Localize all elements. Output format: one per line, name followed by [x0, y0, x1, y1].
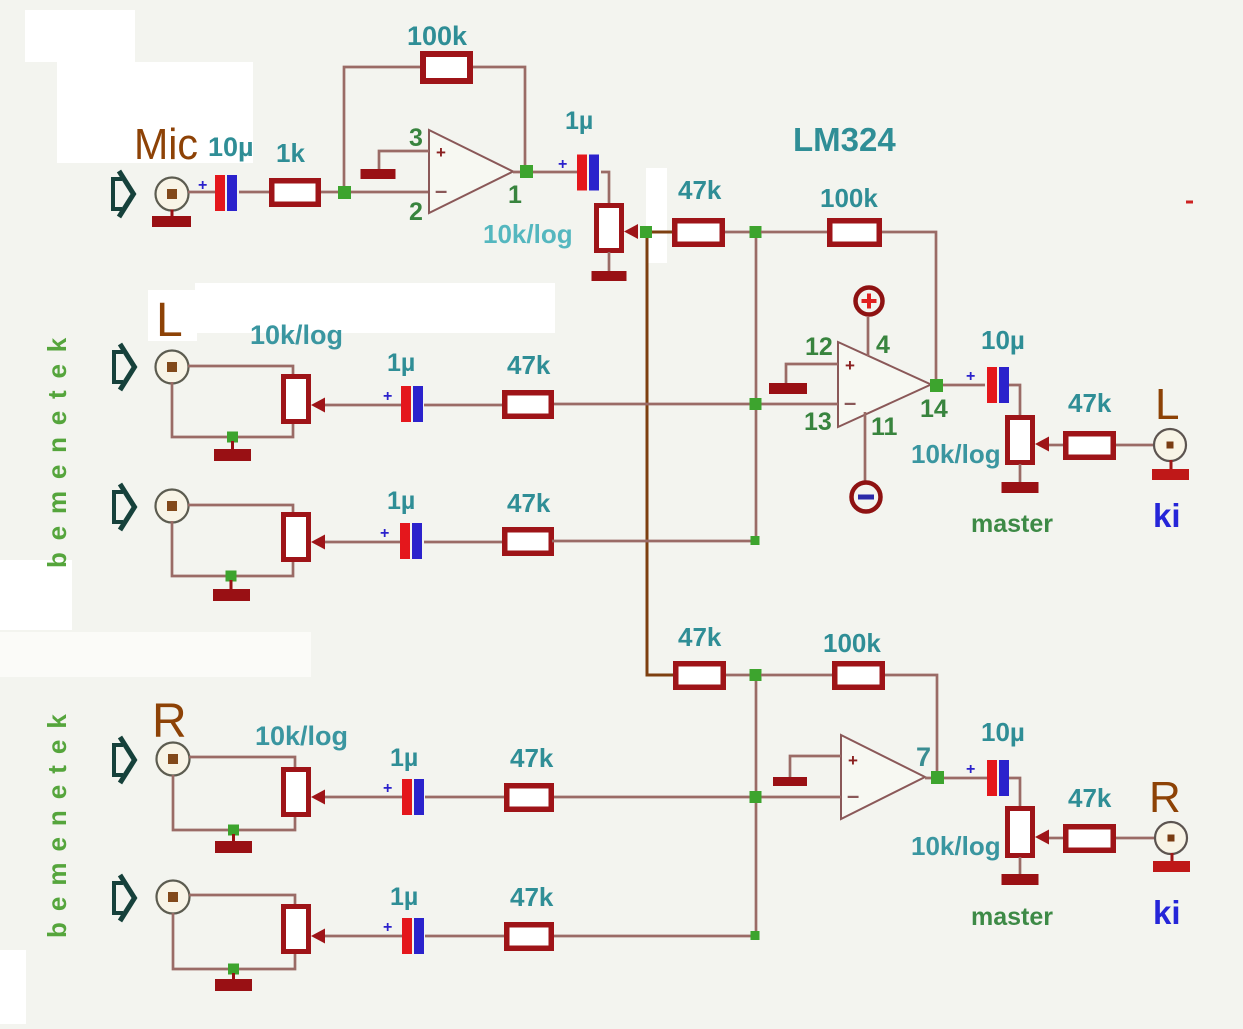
- node (pin 6 junction): [750, 791, 762, 803]
- wire P5 bottom to ground: [1019, 857, 1022, 875]
- capacitor C3 10u: [987, 367, 1009, 403]
- capacitor C1 10u: [215, 175, 237, 211]
- svg-text:master: master: [971, 903, 1053, 931]
- capacitor C6 10u: [987, 760, 1009, 796]
- svg-text:1µ: 1µ: [387, 349, 415, 377]
- ground (pin 12): [769, 383, 807, 394]
- node: U1C output pin 7: [931, 771, 944, 784]
- svg-text:1: 1: [508, 181, 522, 209]
- wire C6 to P5: [1009, 778, 1020, 807]
- svg-text:–: –: [844, 390, 856, 415]
- resistor R4 100k: [830, 221, 880, 245]
- potentiometer P1 10k/log: [597, 206, 639, 251]
- svg-text:+: +: [848, 751, 858, 770]
- potentiometer P4 master L 10k/log: [1008, 418, 1050, 463]
- connector J1 (Mic jack): [156, 178, 189, 211]
- power V- symbol: [852, 483, 881, 512]
- wire node E to R7: [761, 674, 832, 677]
- svg-text:+: +: [383, 919, 392, 936]
- svg-text:ki: ki: [1153, 497, 1181, 534]
- node C (pin 13 junction): [750, 398, 762, 410]
- wire L2 to P3 top: [188, 505, 293, 513]
- wire summing row to pin 13: [553, 403, 838, 406]
- connector R1in: [157, 743, 190, 776]
- svg-text:R: R: [1149, 773, 1181, 822]
- svg-text:L: L: [156, 294, 183, 347]
- resistor R7 100k: [835, 664, 883, 688]
- ground (P4): [1002, 482, 1039, 493]
- svg-text:bemenetek: bemenetek: [42, 326, 72, 568]
- ground (pin 3): [361, 169, 396, 179]
- svg-text:LM324: LM324: [793, 121, 896, 158]
- potentiometer P2 10k/log: [284, 377, 326, 422]
- wire summing row to pin 6: [554, 796, 841, 799]
- wire feedback right: [473, 67, 525, 168]
- svg-text:47k: 47k: [678, 175, 722, 205]
- ground (R out): [1153, 853, 1190, 872]
- svg-text:10µ: 10µ: [208, 132, 254, 162]
- svg-text:4: 4: [876, 331, 890, 359]
- svg-text:1µ: 1µ: [390, 744, 418, 772]
- resistor R3 47k: [675, 221, 723, 245]
- op-amp U1C: [841, 735, 925, 819]
- svg-text:+: +: [966, 761, 975, 778]
- wire P5 wiper to R8: [1049, 837, 1063, 840]
- input connector arrow (R1): [114, 737, 135, 783]
- wire R6 to node E: [726, 674, 750, 677]
- wire R10 to L sum: [552, 540, 751, 543]
- wire C1 to R1: [239, 191, 270, 194]
- svg-text:10µ: 10µ: [981, 325, 1025, 355]
- svg-text:R: R: [152, 695, 187, 748]
- wire U1C output: [925, 777, 987, 780]
- connector L out: [1154, 429, 1186, 461]
- svg-text:+: +: [436, 143, 446, 162]
- svg-text:47k: 47k: [507, 488, 551, 518]
- svg-text:47k: 47k: [1068, 783, 1112, 813]
- wire P7 wiper to C8: [325, 935, 402, 938]
- svg-text:100k: 100k: [820, 183, 878, 213]
- svg-text:L: L: [1155, 380, 1179, 429]
- node (L1 ground): [227, 432, 238, 443]
- svg-text:1µ: 1µ: [390, 883, 418, 911]
- svg-text:10k/log: 10k/log: [255, 721, 348, 751]
- wire pin 11 to V-: [864, 412, 867, 482]
- wire C2 to P1: [601, 172, 609, 204]
- resistor R11 47k: [507, 786, 552, 810]
- wire R3 to node B: [725, 231, 750, 234]
- svg-text:+: +: [380, 525, 389, 542]
- potentiometer P5 master R 10k/log: [1008, 809, 1050, 856]
- wire feedback left: [344, 67, 420, 186]
- wire L summing vertical: [755, 238, 758, 541]
- wire R5 to L out connector: [1116, 444, 1154, 447]
- wire L2 ground loop: [172, 521, 293, 576]
- wire R12 to R sum: [554, 935, 752, 938]
- wire P2 wiper to C4: [325, 404, 401, 407]
- wire R summing vertical: [755, 681, 758, 936]
- svg-text:+: +: [558, 156, 567, 173]
- capacitor C2 1u: [577, 155, 599, 191]
- power V+ symbol: [856, 288, 883, 315]
- node (L2 ground): [226, 571, 237, 582]
- svg-text:+: +: [845, 356, 855, 375]
- stray red mark top right: [1186, 201, 1193, 204]
- ground (L1): [214, 441, 251, 461]
- wire P4 bottom to ground: [1019, 464, 1022, 483]
- node (L2 joins L sum): [751, 536, 760, 545]
- svg-text:47k: 47k: [678, 622, 722, 652]
- wire R4 to U1B output: [882, 232, 936, 380]
- svg-text:14: 14: [920, 395, 948, 423]
- svg-text:+: +: [383, 780, 392, 797]
- wire C7 to R11: [425, 796, 505, 799]
- ground (J1): [152, 210, 191, 228]
- input connector arrow (R2): [114, 875, 135, 921]
- node: U1B output pin 14: [930, 379, 943, 392]
- ground (pin 5): [773, 777, 807, 786]
- svg-text:47k: 47k: [507, 350, 551, 380]
- wire R2in ground loop: [173, 913, 295, 969]
- node B (L sum): [750, 226, 762, 238]
- svg-text:Mic: Mic: [134, 120, 198, 169]
- connector R2in: [157, 881, 190, 914]
- wire C5 to R10: [424, 541, 502, 544]
- wire node A to op-amp pin 2: [351, 191, 429, 194]
- wire node B to R4: [761, 231, 827, 234]
- wire pin 3 to ground: [379, 151, 429, 170]
- resistor R6 47k: [676, 664, 724, 688]
- resistor R1 1k: [272, 181, 319, 205]
- wire R7 to U1C output: [885, 675, 937, 772]
- wire U1A output: [513, 171, 578, 174]
- wire J1 to C1: [188, 191, 216, 194]
- svg-text:10k/log: 10k/log: [250, 320, 343, 350]
- node: P1 wiper: [640, 226, 652, 238]
- wire pin 5 to ground: [790, 756, 841, 777]
- resistor R9 47k: [505, 393, 552, 417]
- ground (P5): [1002, 874, 1039, 885]
- svg-text:47k: 47k: [510, 882, 554, 912]
- svg-text:47k: 47k: [1068, 388, 1112, 418]
- svg-text:10k/log: 10k/log: [911, 831, 1001, 861]
- node (R2 joins R sum): [751, 931, 760, 940]
- wire R8 to R out connector: [1116, 837, 1155, 840]
- wire U1B output: [931, 384, 985, 387]
- svg-text:3: 3: [409, 124, 423, 152]
- svg-text:bemenetek: bemenetek: [42, 703, 72, 938]
- ground (L2): [213, 580, 250, 601]
- wire L1 to P2 top: [188, 366, 293, 376]
- wire L1 ground loop: [172, 382, 293, 437]
- svg-text:13: 13: [804, 408, 832, 436]
- resistor R12 47k: [507, 925, 552, 949]
- wire P6 wiper to C7: [325, 796, 402, 799]
- wire pin 12 to ground: [786, 364, 838, 384]
- connector L2: [156, 490, 189, 523]
- node A (inverting input net): [338, 186, 351, 199]
- wire pin 4 to V+: [867, 317, 870, 356]
- svg-text:+: +: [966, 368, 975, 385]
- svg-text:100k: 100k: [407, 21, 468, 51]
- potentiometer P7 10k/log: [284, 907, 326, 952]
- svg-text:ki: ki: [1153, 894, 1181, 931]
- potentiometer P3 10k/log: [284, 515, 326, 560]
- resistor R8 47k: [1066, 827, 1114, 851]
- wire R1in ground loop: [173, 775, 295, 830]
- svg-text:1µ: 1µ: [387, 487, 415, 515]
- ground (R1): [215, 834, 252, 853]
- svg-text:1µ: 1µ: [565, 107, 593, 135]
- wire P1 wiper to R6 (R mix, long brown): [647, 238, 673, 675]
- wire C3 to P4: [1009, 385, 1020, 416]
- wire P1 bottom to ground: [608, 252, 611, 272]
- ground (L out): [1152, 460, 1189, 480]
- capacitor C4 1u: [401, 386, 423, 422]
- wire R2in to P7 top: [189, 895, 295, 905]
- node E (R sum): [750, 669, 762, 681]
- wire P1 wiper to R3 (L mix): [652, 231, 673, 234]
- input connector arrow (Mic): [113, 171, 134, 217]
- svg-text:2: 2: [409, 198, 423, 226]
- wire C8 to R12: [425, 935, 505, 938]
- capacitor C7 1u: [402, 779, 424, 815]
- svg-text:10k/log: 10k/log: [911, 439, 1001, 469]
- op-amp U1B: [838, 342, 931, 427]
- svg-text:+: +: [198, 177, 207, 194]
- resistor R5 47k: [1066, 434, 1114, 458]
- svg-text:10k/log: 10k/log: [483, 219, 573, 249]
- svg-text:+: +: [383, 388, 392, 405]
- svg-text:1k: 1k: [276, 138, 305, 168]
- capacitor C5 1u: [400, 523, 422, 559]
- svg-text:11: 11: [871, 413, 898, 441]
- wire C4 to R9: [424, 404, 502, 407]
- svg-text:–: –: [847, 783, 859, 808]
- node (R2 ground): [228, 964, 239, 975]
- connector L1: [156, 351, 189, 384]
- node (R1 ground): [228, 825, 239, 836]
- svg-text:–: –: [435, 178, 447, 203]
- resistor R2 100k (feedback): [423, 54, 470, 81]
- wire R1in to P6 top: [189, 757, 295, 768]
- op-amp U1A: [429, 130, 513, 213]
- svg-text:12: 12: [805, 333, 833, 361]
- svg-text:10µ: 10µ: [981, 717, 1025, 747]
- input connector arrow (L1): [114, 344, 135, 390]
- resistor R10 47k: [505, 530, 552, 554]
- svg-text:master: master: [971, 510, 1053, 538]
- wire P3 wiper to C5: [325, 541, 400, 544]
- capacitor C8 1u: [402, 918, 424, 954]
- wire R1 to node A: [321, 191, 338, 194]
- potentiometer P6 10k/log: [284, 770, 326, 815]
- svg-text:100k: 100k: [823, 628, 881, 658]
- ground (R2): [215, 973, 252, 991]
- node: U1A output: [520, 165, 533, 178]
- wire P4 wiper to R5: [1049, 444, 1063, 447]
- connector R out: [1155, 822, 1187, 854]
- svg-text:47k: 47k: [510, 743, 554, 773]
- svg-text:7: 7: [916, 742, 931, 772]
- ground (P1): [592, 271, 627, 281]
- input connector arrow (L2): [114, 484, 135, 530]
